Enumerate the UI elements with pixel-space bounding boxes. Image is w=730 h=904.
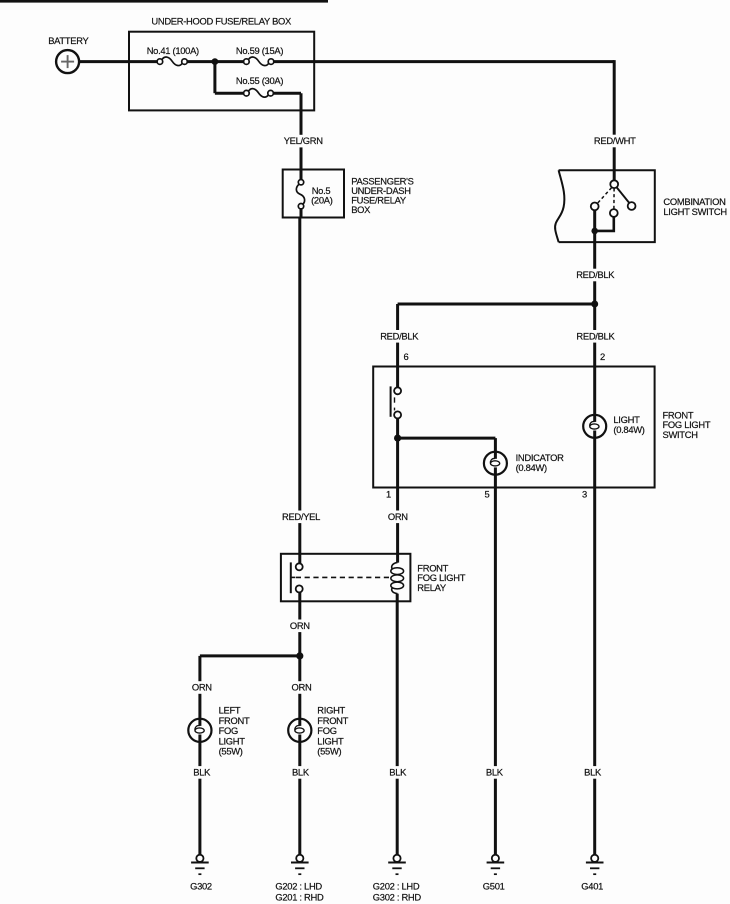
svg-text:BLK: BLK xyxy=(584,767,602,778)
svg-text:ORN: ORN xyxy=(388,511,408,522)
svg-text:G401: G401 xyxy=(581,881,603,892)
svg-text:BOX: BOX xyxy=(351,204,371,215)
svg-text:1: 1 xyxy=(386,488,391,499)
svg-text:RED/WHT: RED/WHT xyxy=(594,135,636,146)
svg-text:RED/BLK: RED/BLK xyxy=(576,330,615,341)
svg-text:G302: G302 xyxy=(190,881,212,892)
svg-text:G202 : LHD: G202 : LHD xyxy=(373,880,420,891)
svg-text:No.41 (100A): No.41 (100A) xyxy=(147,45,199,56)
svg-text:No.59 (15A): No.59 (15A) xyxy=(236,45,283,56)
svg-text:ORN: ORN xyxy=(292,682,312,693)
svg-text:RED/BLK: RED/BLK xyxy=(380,330,419,341)
svg-text:RED/BLK: RED/BLK xyxy=(576,269,615,280)
svg-text:2: 2 xyxy=(600,351,605,362)
svg-text:(0.84W): (0.84W) xyxy=(516,462,547,473)
svg-text:RED/YEL: RED/YEL xyxy=(282,511,320,522)
svg-text:BLK: BLK xyxy=(389,767,407,778)
svg-text:6: 6 xyxy=(404,351,409,362)
svg-text:G201 : RHD: G201 : RHD xyxy=(275,891,324,902)
svg-text:G501: G501 xyxy=(483,881,505,892)
svg-text:ORN: ORN xyxy=(192,682,212,693)
svg-text:RELAY: RELAY xyxy=(417,582,447,593)
svg-text:(0.84W): (0.84W) xyxy=(613,424,644,435)
svg-text:LIGHT SWITCH: LIGHT SWITCH xyxy=(663,206,726,217)
svg-text:BLK: BLK xyxy=(486,767,504,778)
svg-text:ORN: ORN xyxy=(290,620,310,631)
svg-text:BLK: BLK xyxy=(292,767,310,778)
svg-text:UNDER-HOOD FUSE/RELAY BOX: UNDER-HOOD FUSE/RELAY BOX xyxy=(151,16,292,27)
svg-text:3: 3 xyxy=(582,488,587,499)
svg-text:BATTERY: BATTERY xyxy=(48,35,89,46)
svg-text:BLK: BLK xyxy=(193,767,211,778)
svg-text:(55W): (55W) xyxy=(219,746,243,757)
svg-text:No.55 (30A): No.55 (30A) xyxy=(236,75,283,86)
svg-text:(55W): (55W) xyxy=(317,746,341,757)
svg-text:YEL/GRN: YEL/GRN xyxy=(284,135,323,146)
svg-text:SWITCH: SWITCH xyxy=(663,429,698,440)
svg-text:(20A): (20A) xyxy=(311,194,333,205)
svg-text:G202 : LHD: G202 : LHD xyxy=(275,880,322,891)
svg-text:G302 : RHD: G302 : RHD xyxy=(373,891,422,902)
svg-text:5: 5 xyxy=(485,488,490,499)
